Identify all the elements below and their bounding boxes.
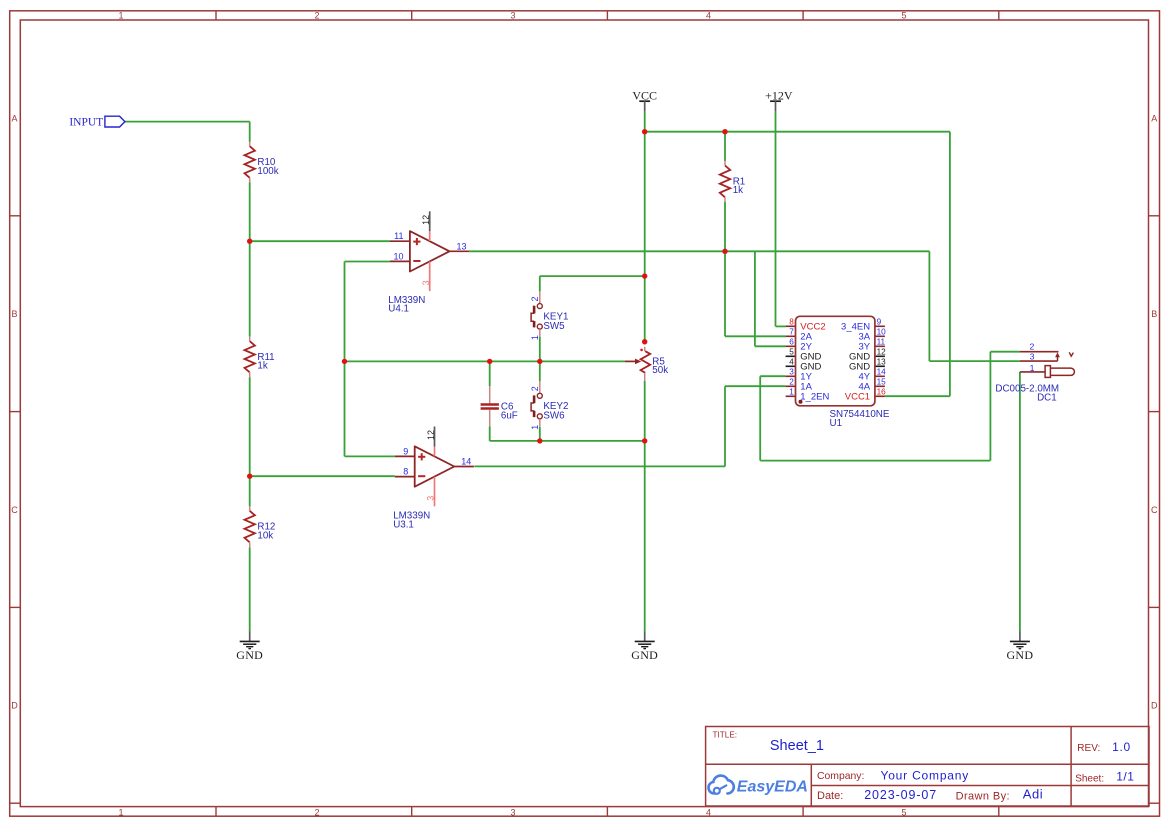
wire R10 to R11 — [249, 182, 251, 336]
svg-text:3: 3 — [426, 496, 436, 501]
svg-text:12: 12 — [421, 215, 431, 225]
svg-text:1.0: 1.0 — [1112, 740, 1131, 754]
wire node to U3.1 pin 8 — [250, 475, 395, 477]
wire VCC rail down — [644, 111, 646, 344]
wire U1 pin 3 to DC1 pin 2 — [760, 352, 1020, 461]
wire R12 to GND — [249, 547, 251, 631]
svg-text:REV:: REV: — [1077, 743, 1100, 754]
svg-text:4: 4 — [706, 11, 711, 21]
svg-text:2: 2 — [314, 11, 319, 21]
wire net to U1 pin 7 — [725, 251, 786, 336]
svg-text:3: 3 — [510, 11, 515, 21]
wire C6 top — [489, 361, 491, 386]
resistor R1 — [720, 161, 745, 202]
junction node (539.8,361.4) — [537, 359, 542, 364]
svg-text:100k: 100k — [257, 166, 278, 177]
svg-text:B: B — [11, 309, 17, 319]
svg-text:U4.1: U4.1 — [388, 304, 409, 315]
svg-text:EasyEDA: EasyEDA — [737, 778, 808, 795]
port INPUT — [69, 116, 125, 129]
svg-text:5: 5 — [901, 807, 906, 817]
svg-text:15: 15 — [877, 378, 887, 387]
wire bus to U3.1 pin 9 — [345, 455, 395, 457]
op-amp U4.1 LM339N — [388, 211, 469, 314]
svg-text:B: B — [1151, 309, 1157, 319]
junction node (725.0,131.7) — [722, 129, 727, 134]
svg-text:7: 7 — [789, 328, 794, 337]
svg-text:14: 14 — [877, 368, 887, 377]
wire VCC top rail — [645, 132, 950, 397]
svg-text:Your Company: Your Company — [881, 769, 970, 783]
junction node (644.7,131.7) — [642, 129, 647, 134]
svg-text:14: 14 — [461, 457, 471, 467]
resistor R12 — [245, 506, 276, 547]
svg-text:1: 1 — [530, 425, 540, 430]
svg-text:12: 12 — [426, 430, 436, 440]
svg-text:C: C — [1151, 505, 1158, 515]
svg-text:D: D — [11, 701, 18, 711]
wire KEY1 top to VCC rail — [540, 276, 645, 291]
wire middle bus to R5 — [345, 360, 626, 362]
wire net to U1 pin 6 — [755, 251, 786, 346]
svg-text:1: 1 — [118, 807, 123, 817]
wire bus to KEY2 top — [539, 361, 541, 381]
junction node (644.7,440.9) — [642, 438, 647, 443]
wire U4.1 pin 10 to bus — [345, 262, 391, 457]
svg-text:10k: 10k — [257, 530, 273, 541]
svg-text:2: 2 — [530, 296, 540, 301]
svg-text:U1: U1 — [830, 418, 843, 429]
svg-text:10: 10 — [393, 251, 403, 261]
junction node (539.8,440.9) — [537, 438, 542, 443]
svg-text:D: D — [1151, 701, 1158, 711]
svg-text:3: 3 — [1030, 352, 1035, 362]
junction node (725.0,251.3) — [722, 249, 727, 254]
svg-text:DC1: DC1 — [1037, 392, 1057, 403]
wire +12V to U1 pin 8 — [776, 111, 786, 326]
ground GND middle — [631, 632, 658, 663]
switch KEY1 SW5 — [530, 291, 568, 340]
svg-text:16: 16 — [877, 388, 887, 397]
svg-text:5: 5 — [789, 348, 794, 357]
wire R1 bottom — [724, 202, 726, 251]
svg-text:2: 2 — [1029, 341, 1034, 351]
ground GND right — [1006, 632, 1033, 663]
svg-text:6: 6 — [789, 338, 794, 347]
op-amp U3.1 LM339N — [393, 427, 474, 531]
EasyEDA logo — [709, 776, 808, 796]
svg-text:5: 5 — [901, 11, 906, 21]
title block — [706, 727, 1149, 807]
svg-text:GND: GND — [1006, 648, 1033, 662]
svg-text:C: C — [11, 505, 18, 515]
svg-text:Adi: Adi — [1023, 787, 1043, 802]
svg-text:11: 11 — [394, 231, 403, 241]
svg-text:1: 1 — [118, 11, 123, 21]
wire KEY1 bottom to bus — [539, 337, 541, 362]
wire DC1 pin 1 to GND — [1019, 372, 1021, 632]
ground GND left — [236, 632, 263, 663]
svg-text:1: 1 — [1030, 363, 1035, 373]
svg-text:13: 13 — [877, 358, 887, 367]
wire C6 bottom rail — [490, 426, 645, 441]
svg-text:INPUT: INPUT — [69, 117, 103, 129]
svg-text:Sheet_1: Sheet_1 — [770, 738, 824, 754]
svg-text:1: 1 — [789, 388, 794, 397]
svg-text:9: 9 — [877, 318, 882, 327]
svg-text:Company:: Company: — [817, 771, 864, 782]
svg-text:3: 3 — [421, 280, 431, 285]
svg-text:SW6: SW6 — [543, 411, 565, 422]
wire U3.1 output to U1 pin 2 — [474, 386, 785, 466]
svg-text:+12V: +12V — [765, 88, 793, 102]
wire INPUT to R10 — [125, 122, 250, 142]
svg-text:TITLE:: TITLE: — [713, 731, 738, 740]
wire KEY2 bottom — [539, 427, 541, 441]
svg-text:GND: GND — [631, 648, 658, 662]
svg-text:VCC: VCC — [632, 88, 657, 102]
svg-text:Sheet:: Sheet: — [1075, 773, 1104, 784]
svg-text:3: 3 — [510, 807, 515, 817]
svg-text:VCC1: VCC1 — [845, 392, 870, 403]
svg-text:2023-09-07: 2023-09-07 — [864, 788, 937, 802]
svg-text:1k: 1k — [733, 185, 743, 196]
resistor R11 — [245, 337, 275, 378]
wire R5 to GND — [644, 381, 646, 632]
svg-text:9: 9 — [403, 446, 408, 456]
wire R11 to R12 — [249, 377, 251, 506]
junction node (344.5,361.4) — [342, 359, 347, 364]
power flag VCC — [632, 88, 657, 111]
svg-text:2: 2 — [530, 386, 540, 391]
connector DC1 DC005-2.0MM — [995, 341, 1074, 403]
junction node (644.7,341.7) — [642, 339, 647, 344]
junction node (249.7,241.2) — [247, 239, 252, 244]
svg-text:4: 4 — [706, 807, 711, 817]
resistor R10 — [245, 142, 279, 183]
svg-text:6uF: 6uF — [501, 410, 518, 421]
IC U1 SN754410NE — [786, 316, 890, 429]
junction node (489.7,361.4) — [487, 359, 492, 364]
svg-text:8: 8 — [789, 318, 794, 327]
switch KEY2 SW6 — [530, 381, 568, 430]
svg-text:A: A — [11, 114, 17, 124]
wire U4.1 output net — [469, 251, 1020, 361]
junction node (249.7,476.2) — [247, 474, 252, 479]
svg-text:1_2EN: 1_2EN — [800, 392, 829, 403]
svg-text:1/1: 1/1 — [1116, 770, 1134, 784]
svg-text:3: 3 — [789, 368, 794, 377]
svg-text:2: 2 — [789, 378, 794, 387]
svg-text:13: 13 — [457, 241, 467, 251]
svg-text:4: 4 — [789, 358, 794, 367]
svg-text:10: 10 — [877, 328, 887, 337]
svg-text:U3.1: U3.1 — [393, 520, 414, 531]
svg-text:2: 2 — [314, 807, 319, 817]
svg-text:50k: 50k — [652, 365, 668, 376]
wire U1 pin 16 to VCC rail — [885, 395, 950, 397]
junction node (644.7,276.1) — [642, 273, 647, 278]
capacitor C6 — [481, 386, 518, 426]
svg-text:1k: 1k — [257, 361, 267, 372]
svg-text:A: A — [1151, 114, 1157, 124]
svg-text:11: 11 — [877, 338, 886, 347]
svg-text:SW5: SW5 — [543, 321, 565, 332]
svg-text:12: 12 — [877, 348, 887, 357]
potentiometer R5 — [625, 347, 668, 381]
svg-text:GND: GND — [236, 648, 263, 662]
svg-text:8: 8 — [403, 467, 408, 477]
power flag +12V — [765, 88, 793, 111]
wire R1 top — [724, 132, 726, 161]
wire node to U4.1 pin 11 — [250, 240, 390, 242]
svg-text:Drawn By:: Drawn By: — [956, 790, 1010, 802]
svg-text:Date:: Date: — [817, 790, 843, 802]
svg-text:1: 1 — [530, 335, 540, 340]
